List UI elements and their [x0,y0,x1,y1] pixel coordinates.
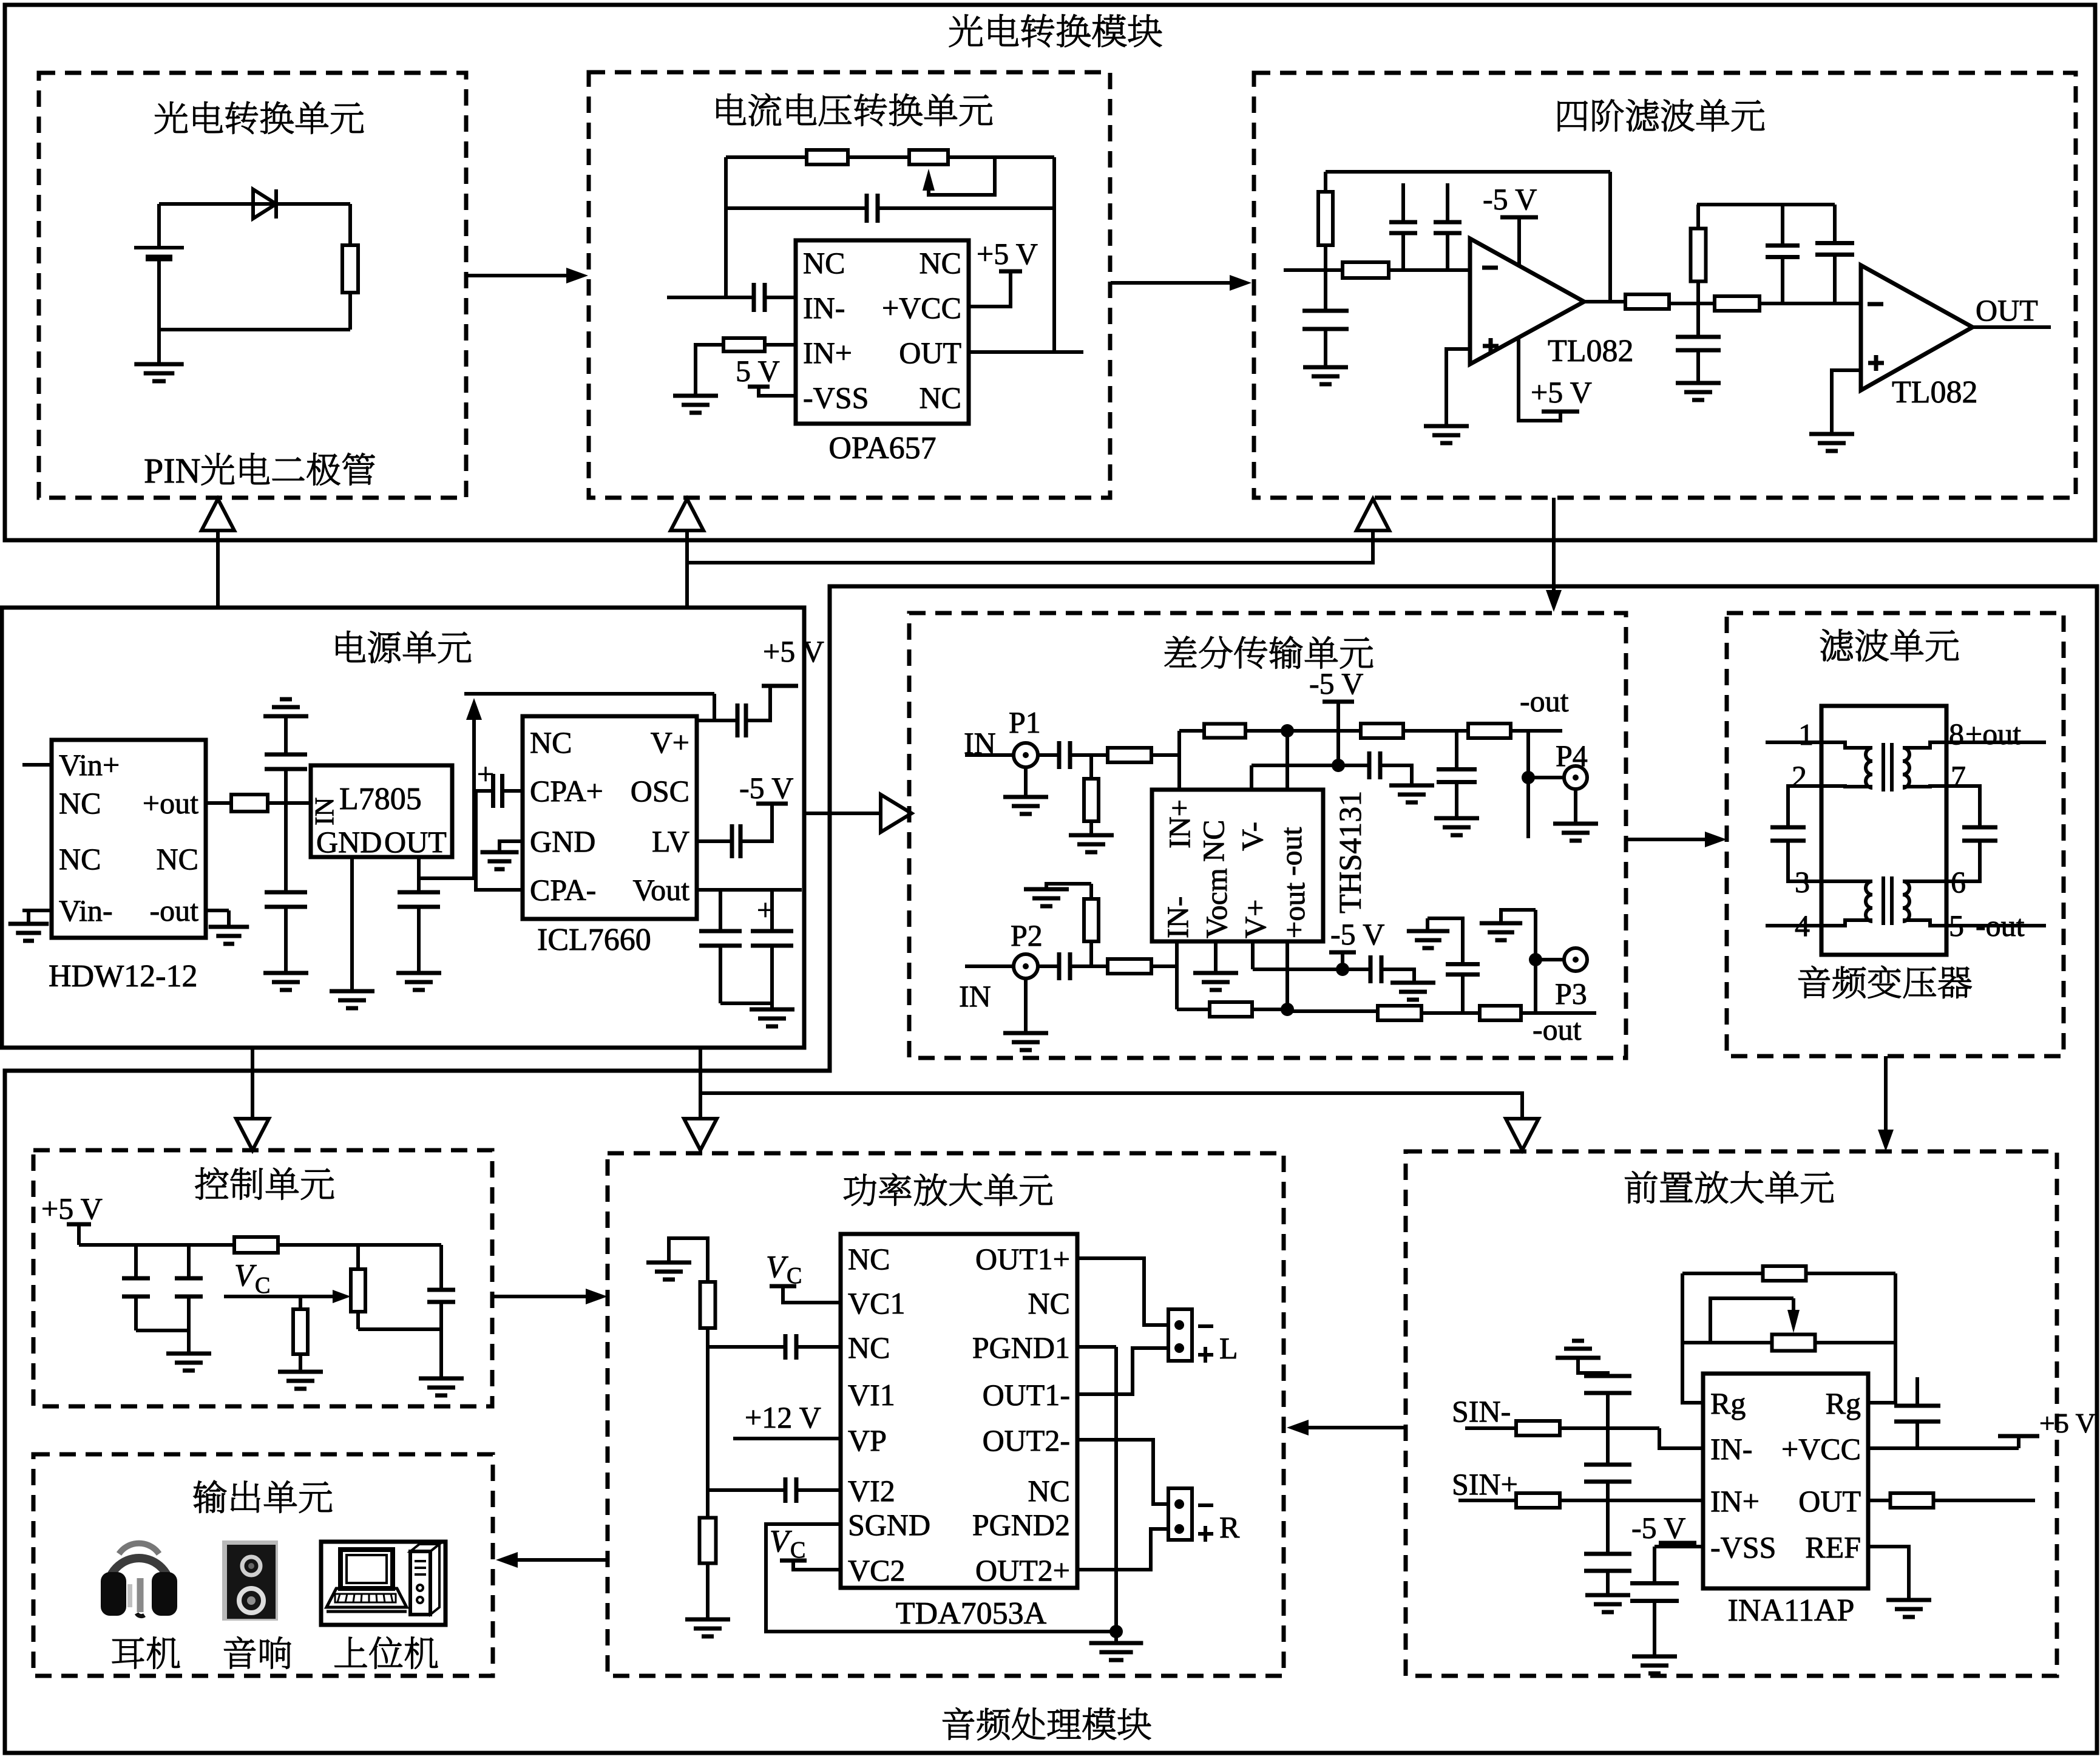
power feed wire [687,530,1373,563]
signal arrow into 滤波单元 [1626,832,1727,847]
op-amp U2b TL082 [1861,265,1973,390]
open arrow into 四阶滤波单元 [1357,499,1389,530]
label 音响 [224,1636,291,1669]
wire winding lead [1903,879,1946,883]
power feed wire [216,530,220,608]
connector pin [1174,1524,1184,1534]
wire -out column [1285,731,1289,790]
label VC [234,1258,270,1298]
svg-text:8: 8 [1949,717,1964,751]
svg-text:OSC: OSC [631,774,689,808]
core [1883,876,1892,925]
wire [1934,1499,2035,1502]
svg-text:-out: -out [1533,1012,1582,1046]
wire [1653,1601,1656,1656]
ground [419,1378,464,1395]
potentiometer RP body [909,150,948,164]
wire Vout [697,888,802,892]
minus sign [1198,1324,1213,1328]
wire to IN- [1659,1428,1703,1448]
wire [284,803,288,892]
op-amp U1 OPA657 box [796,240,969,424]
wire [187,1245,191,1278]
capacitor [1369,751,1380,779]
junction [1109,1625,1123,1638]
plus sign [1868,355,1884,371]
connector pin [1174,1499,1184,1509]
resistor [700,1518,716,1564]
wire -out stub [206,909,229,912]
svg-text:VC1: VC1 [848,1286,905,1320]
wire feedback vertical [1608,172,1612,302]
wire VI2 cap [796,1488,841,1492]
plus sign [1198,1347,1213,1363]
wire [1455,782,1458,818]
unit box 四阶滤波单元 [1254,73,2076,498]
wire winding lead [1903,742,1946,748]
-5V supply bar [1659,1541,1696,1545]
wire [1070,964,1108,968]
svg-text:NC: NC [848,1330,890,1364]
capacitor C2c [1676,337,1721,350]
+5V supply bar [1542,410,1579,414]
ground [166,1354,211,1371]
wire [770,946,774,1003]
wire VP +12V [733,1437,841,1440]
diode D1 [253,189,276,219]
wire [284,907,288,973]
svg-text:TL082: TL082 [1548,334,1634,368]
ground [481,852,519,869]
svg-text:IN+: IN+ [1710,1484,1760,1518]
ground [263,973,308,990]
svg-text:P3: P3 [1555,977,1587,1011]
svg-text:C: C [255,1273,270,1298]
svg-text:THS4131: THS4131 [1333,791,1368,913]
junction [1332,759,1345,772]
-5V supply bar [1323,700,1354,704]
wire [1253,968,1338,971]
wire +out [206,801,231,805]
ground [1003,797,1048,814]
junction [1529,953,1542,966]
svg-text:NC: NC [1196,820,1230,862]
capacitor C2b [1815,243,1854,255]
wire VC with arrow [224,1290,351,1303]
label 上位机 [335,1637,438,1669]
wire [348,293,352,330]
svg-text:OUT2+: OUT2+ [975,1553,1070,1587]
junction [1281,1003,1294,1016]
junction [1522,771,1535,784]
svg-text:-VSS: -VSS [1710,1530,1776,1564]
resistor [700,1282,716,1328]
wire to V+ [697,694,714,720]
wire [708,1345,785,1349]
wire CPA+ [503,789,523,793]
wire plus input to ground [1832,370,1861,434]
title 电流电压转换单元 [717,93,992,126]
wire winding lead [1821,920,1872,926]
winding secondary upper [1903,748,1909,788]
title 差分传输单元 [1165,636,1373,668]
wire [1252,764,1338,767]
svg-text:TDA7053A: TDA7053A [896,1596,1047,1631]
capacitor C4 [699,931,742,946]
wire [299,1296,302,1309]
transformer T1 box [1821,706,1946,955]
unit box 差分传输单元 [909,613,1626,1058]
svg-text:ICL7660: ICL7660 [537,923,651,957]
IC THS4131 box [1152,790,1323,941]
svg-text:HDW12-12: HDW12-12 [49,959,198,994]
+5V supply bar [67,1222,91,1227]
IC INA11AP box [1703,1374,1868,1588]
capacitor C pump [493,774,503,808]
wire [1151,964,1177,968]
ground [1632,1656,1677,1673]
resistor Rf [807,150,848,164]
wire [1024,767,1028,797]
plus sign [1483,338,1499,354]
capacitor [1770,827,1806,841]
unit box 电流电压转换单元 [589,72,1110,498]
junction [1281,724,1294,737]
wire potentiometer row [1682,1341,1895,1344]
unit box 滤波单元 [1727,613,2064,1056]
svg-text:NC: NC [157,842,198,876]
title 电源单元 [336,631,471,663]
svg-text:+VCC: +VCC [882,291,961,325]
svg-text:IN-: IN- [1710,1432,1752,1466]
svg-text:PIN: PIN [144,451,200,490]
capacitor [175,1278,203,1296]
wire op-amp output [1584,300,1625,303]
svg-text:VP: VP [848,1423,887,1457]
wire OUT pin [417,857,421,892]
title 光电转换模块 [949,14,1162,47]
wire [1696,350,1700,383]
wire left rail [706,1328,710,1517]
wire [1070,753,1108,757]
+5V supply bar [762,684,798,688]
resistor feedback [1763,1266,1806,1281]
svg-text:V+: V+ [1238,900,1272,938]
label PIN光电二极管 [144,451,374,490]
signal arrow into 差分传输单元 [1546,498,1562,612]
ground [673,396,718,413]
wire [348,204,352,245]
ground [1024,889,1069,906]
capacitor [122,1278,150,1296]
svg-text:+out: +out [1965,717,2021,751]
wire plus input to ground [1446,349,1470,426]
ground [396,973,441,990]
svg-text:L: L [1219,1331,1238,1365]
5V supply bar [748,385,770,389]
resistor [1108,748,1151,762]
svg-text:REF: REF [1805,1530,1861,1564]
wire to IN- [765,296,796,299]
svg-text:NC: NC [530,725,572,759]
unit box 控制单元 [33,1150,492,1406]
wire [1501,910,1536,923]
wire -VSS supply [759,387,796,396]
unit box 前置放大单元 [1406,1151,2057,1676]
wire Vin- stub [22,909,52,912]
connector P4 [1564,766,1587,789]
wire [1536,958,1565,961]
wire [1089,755,1093,779]
svg-text:Vocm: Vocm [1199,868,1233,938]
+5V supply bar [1998,1434,2039,1439]
potentiometer wiper arrow [923,157,995,195]
capacitor [1584,1554,1631,1571]
title 音频处理模块 [943,1707,1151,1740]
wire SGND [766,1524,1116,1632]
wire [1403,729,1468,733]
ground [1886,1600,1931,1617]
signal arrow to 功率放大单元 [492,1289,608,1304]
resistor R mid [1625,294,1669,309]
svg-text:2: 2 [1792,759,1807,793]
capacitor [1584,1465,1631,1482]
title 前置放大单元 [1625,1171,1834,1204]
open arrow into 功率放大单元 [684,1119,717,1150]
capacitor C out- [732,824,740,858]
-5V supply bar [1500,215,1538,220]
svg-text:PGND1: PGND1 [972,1330,1070,1364]
title 四阶滤波单元 [1558,100,1764,132]
wire [1606,1482,1610,1553]
ground [278,1372,323,1389]
wire [27,910,30,924]
module box 光电转换模块 [5,5,2095,540]
capacitor C3 [398,892,440,907]
wire [720,1002,772,1005]
wire [1915,1422,1919,1448]
wire Vin+ stub [22,763,52,767]
unit box 功率放大单元 [608,1153,1284,1676]
wire inter-stage [1669,302,1715,305]
resistor [293,1309,308,1354]
wire V+ column [1251,941,1255,969]
wire [1781,205,1784,246]
wire [417,907,421,973]
svg-text:NC: NC [59,786,101,820]
ground [1407,931,1449,948]
wire [439,1245,443,1290]
wire pin3 [1788,841,1821,881]
wire OUT2- [1077,1440,1168,1504]
capacitor [785,1477,796,1503]
wire V- column [1250,765,1253,790]
wire [1781,257,1784,303]
wire [1696,205,1700,229]
svg-text:LV: LV [652,824,689,858]
wire [1511,729,1562,733]
capacitor [1446,964,1480,975]
ground (inverted) [1556,1341,1600,1358]
IC ICL7660 box [523,716,697,919]
VC supply bar [770,1284,796,1289]
wire to IN+ [1560,1499,1703,1502]
+5V supply bar [999,269,1022,274]
VC supply bar [780,1559,807,1563]
svg-text:P4: P4 [1556,739,1588,773]
connector P3 [1564,948,1587,971]
svg-text:P1: P1 [1009,705,1041,739]
unit box 输出单元 [33,1454,493,1676]
svg-text:NC: NC [803,246,845,280]
svg-text:V: V [766,1250,788,1284]
wire [299,1354,302,1372]
wire -out row [1287,729,1361,733]
svg-text:CPA+: CPA+ [530,774,603,808]
module box 电源单元 [2,608,804,1048]
wire [965,964,1014,968]
wire [1421,1011,1480,1015]
power feed wire [251,1048,254,1119]
wire [1428,918,1463,964]
wire GND pin [350,857,354,991]
open arrow into 光电转换单元 [202,499,234,530]
wire feedback top [1682,1272,1895,1275]
signal arrow to 电流电压转换单元 [466,268,588,283]
wire [770,890,774,931]
wire [439,1302,443,1378]
wire battery to ground [157,261,161,364]
resistor [234,1237,278,1253]
svg-text:Vin-: Vin- [59,893,113,927]
svg-text:OUT: OUT [384,825,447,859]
svg-text:VI1: VI1 [848,1378,895,1412]
ground [646,1262,691,1279]
IC TDA7053A box [841,1234,1077,1588]
wire [1324,172,1327,192]
svg-text:SGND: SGND [848,1508,930,1542]
wire 5V feed [419,720,474,878]
wire [1574,789,1577,824]
wire OUT2+ [1077,1529,1168,1570]
wire [1578,1358,1608,1375]
title 滤波单元 [1820,629,1959,662]
wire winding lead [1903,786,1946,787]
wire [187,1296,191,1354]
signal arrow to 四阶滤波单元 [1111,275,1252,291]
winding primary lower [1866,881,1872,921]
wire OUT [1973,325,2051,329]
svg-text:V-: V- [1235,822,1269,851]
wire [1046,884,1091,889]
wire cap stub [1446,183,1449,221]
svg-text:INA11AP: INA11AP [1728,1593,1855,1628]
resistor [1891,1493,1934,1508]
capacitor [1437,770,1477,782]
wire [1324,245,1327,270]
wire [136,1329,189,1332]
svg-text:IN-: IN- [1160,896,1194,938]
capacitor [1059,741,1070,769]
potentiometer wiper arrow [1787,1298,1800,1333]
wire pump loop [476,791,523,890]
potentiometer body [1772,1335,1815,1351]
wire [714,719,738,722]
wire to Rg [1682,1273,1703,1403]
svg-text:NC: NC [920,381,961,415]
wire [1426,918,1429,931]
wire [770,1003,774,1009]
svg-text:+5 V: +5 V [2039,1408,2096,1439]
wire feedback [1179,729,1204,733]
svg-text:7: 7 [1951,759,1966,793]
svg-text:Vin+: Vin+ [59,748,120,782]
wire [1521,1011,1596,1015]
label VC [766,1250,802,1289]
wire [1089,884,1093,899]
battery V bias [134,248,184,258]
svg-text:L7805: L7805 [339,782,422,816]
open arrow into 差分传输单元 [881,795,912,832]
wire cap stub [1401,183,1405,221]
svg-text:NC: NC [59,842,101,876]
wire [1151,753,1179,757]
wire PGND vertical [1114,1347,1118,1632]
wire [1038,964,1059,968]
ground [1480,923,1522,940]
ground [209,927,249,944]
potentiometer RV [351,1269,365,1312]
open arrow into 电流电压转换单元 [671,499,703,530]
capacitor [427,1290,455,1302]
signal arrow to 输出单元 [496,1552,608,1568]
resistor [1084,899,1099,941]
ground [1676,383,1721,400]
wire pin1 [1766,741,1821,744]
minus sign [1868,302,1883,307]
wire input stage1 [1284,268,1470,272]
wire winding lead [1903,920,1946,926]
svg-text:NC: NC [920,246,961,280]
wire input [667,296,754,299]
ground [1069,835,1114,852]
wire pin7 [1946,786,1980,827]
svg-text:-5 V: -5 V [1309,666,1363,700]
wire rail [79,1243,441,1247]
label 耳机 [112,1637,180,1669]
svg-text:IN+: IN+ [1162,799,1196,849]
svg-text:-5 V: -5 V [1631,1511,1685,1545]
wire wiper loop [1710,1298,1793,1343]
wire [1606,1393,1610,1464]
winding secondary lower [1903,881,1909,921]
wire feedback cap left [726,206,867,210]
wire [77,1224,81,1245]
wire [719,946,722,1003]
ground [1193,973,1238,990]
wire [1341,952,1344,969]
wire LV [697,839,732,843]
wire [227,910,231,927]
svg-text:-5 V: -5 V [739,771,793,805]
power feed wire [700,1093,1522,1119]
resistor R IN+ [723,338,765,351]
ground [750,1009,794,1026]
wire IN+ column [1177,731,1181,790]
wire +out row [1177,1008,1210,1011]
ground (inverted) [263,699,308,716]
svg-text:V: V [234,1258,257,1293]
